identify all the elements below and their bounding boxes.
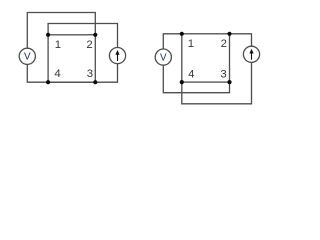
node 3 right dot — [227, 80, 231, 84]
two-port box right — [182, 34, 230, 82]
current source left arrow — [115, 50, 119, 61]
current source right circle — [243, 46, 259, 62]
wire: right node 2 to current source top — [230, 34, 252, 47]
svg-text:1: 1 — [55, 39, 61, 51]
current source left circle — [109, 48, 125, 64]
svg-text:2: 2 — [221, 38, 227, 50]
current source right arrow — [249, 49, 253, 60]
node 2 left dot — [93, 33, 97, 37]
wire: right node 4 to current source bottom — [182, 63, 252, 104]
svg-text:4: 4 — [188, 68, 194, 80]
node 1 left dot — [46, 33, 50, 37]
voltage source V left circle — [19, 48, 35, 64]
wire: left V+ top loop to node 2 — [27, 13, 95, 49]
wire: left node 1 to current source top — [48, 24, 117, 48]
wire: right V+ to node 1 — [163, 34, 182, 49]
node 4 left dot — [46, 80, 50, 84]
svg-text:2: 2 — [86, 39, 92, 51]
two-port box left — [48, 35, 95, 82]
node 4 right dot — [180, 80, 184, 84]
wire: right V- to node 3 — [163, 65, 229, 93]
node 2 right dot — [227, 32, 231, 36]
node 3 left dot — [93, 80, 97, 84]
node 1 right dot — [180, 32, 184, 36]
svg-text:V: V — [160, 52, 167, 63]
svg-text:4: 4 — [54, 68, 60, 80]
svg-text:V: V — [24, 51, 31, 62]
wire: left bottom common (V- to 4 to 3 to I-) — [27, 64, 117, 82]
svg-text:1: 1 — [188, 38, 194, 50]
voltage source V right circle — [155, 49, 171, 65]
svg-text:3: 3 — [87, 68, 93, 80]
svg-text:3: 3 — [220, 68, 226, 80]
